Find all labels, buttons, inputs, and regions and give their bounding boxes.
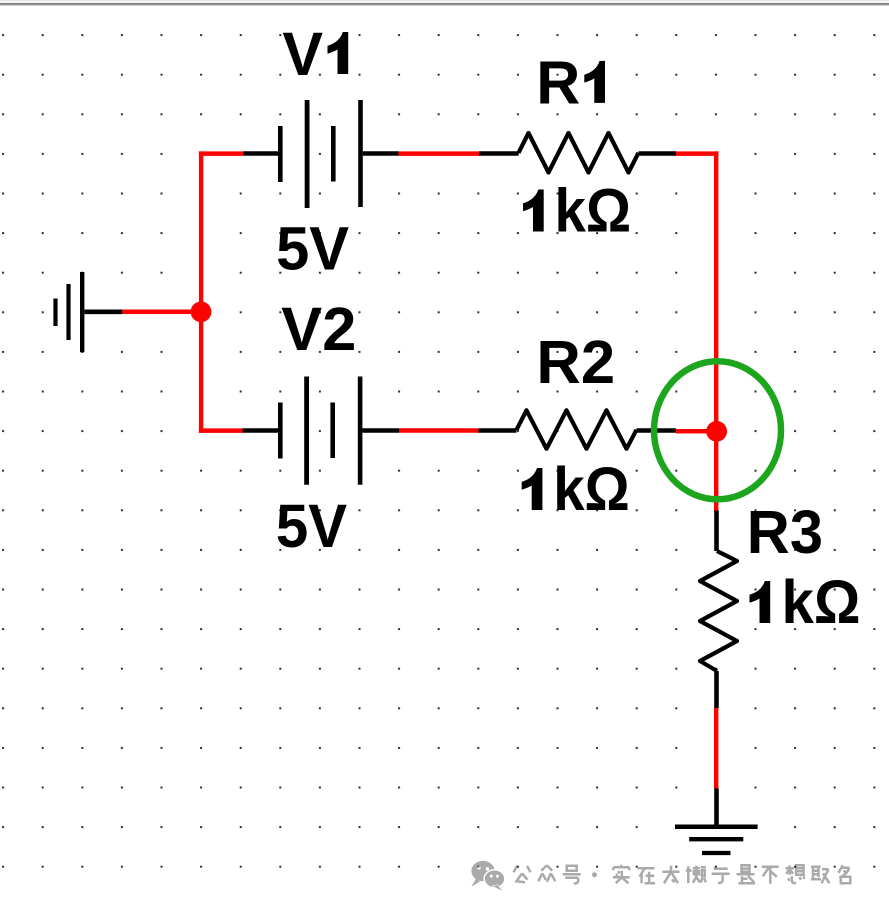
- wechat icon small bubble: [484, 870, 505, 891]
- watermark char 公: [514, 866, 531, 883]
- watermark char 太: [663, 866, 680, 884]
- node A junction dot: [191, 301, 212, 322]
- wire: R3 to GND2: [714, 707, 718, 789]
- watermark char 号: [563, 866, 581, 884]
- svg-text:5V: 5V: [276, 214, 349, 282]
- wire: V2 to R2: [399, 428, 479, 433]
- watermark char 名: [838, 865, 850, 883]
- svg-text:V: V: [282, 20, 323, 88]
- watermark char 在: [638, 868, 656, 883]
- wire: GND1 to node A: [122, 310, 201, 315]
- wire: left corner to V2: [199, 428, 243, 433]
- wire: left vertical trunk: [199, 151, 203, 433]
- watermark char 于: [712, 869, 730, 883]
- wechat icon big bubble: [471, 861, 494, 887]
- watermark char 懒: [687, 866, 706, 884]
- value 1kΩ of R2: [522, 468, 543, 510]
- watermark separator dot: [592, 872, 597, 877]
- resistor R3: [700, 511, 737, 709]
- svg-text:R3: R3: [747, 498, 823, 566]
- svg-text:R: R: [536, 48, 580, 116]
- wire: node B down to R3: [714, 431, 718, 512]
- wire: R1 to right corner: [676, 151, 719, 156]
- wire: V1 to R1: [399, 151, 480, 156]
- watermark char 实: [613, 865, 630, 884]
- svg-text:5V: 5V: [276, 492, 347, 560]
- wire: right vertical down to node B: [714, 151, 718, 431]
- resistor R1: [479, 133, 676, 173]
- watermark char 想: [786, 865, 805, 883]
- watermark: WeChat logo + text: [471, 861, 850, 891]
- annotation: green circle highlighting node B: [654, 361, 781, 499]
- svg-text:R2: R2: [536, 328, 615, 396]
- ground GND2 (bottom): [675, 789, 758, 854]
- watermark char 是: [737, 865, 756, 883]
- svg-text:V2: V2: [281, 295, 356, 363]
- battery V1: [244, 100, 399, 208]
- svg-text:kΩ: kΩ: [782, 568, 861, 636]
- battery V2: [243, 377, 400, 485]
- resistor R2: [479, 410, 677, 449]
- top window border: [0, 0, 889, 6]
- watermark char 取: [811, 867, 830, 884]
- node B junction dot: [706, 421, 727, 442]
- wire: corner to V1: [199, 151, 244, 156]
- wechat icon eyes: [477, 866, 499, 878]
- watermark char 众: [538, 865, 555, 882]
- svg-text:kΩ: kΩ: [553, 455, 630, 523]
- value 1kΩ of R1: [523, 190, 544, 232]
- svg-text:kΩ: kΩ: [555, 177, 632, 245]
- ground GND1 (left): [56, 272, 123, 352]
- watermark char 不: [762, 867, 779, 884]
- value 1kΩ of R3: [750, 581, 771, 623]
- wire: R2 to node B: [676, 429, 717, 434]
